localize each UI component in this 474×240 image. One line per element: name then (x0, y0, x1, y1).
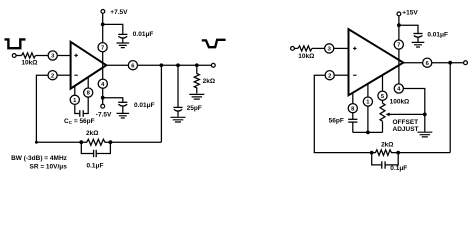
junction output right (448, 61, 452, 65)
potentiometer 100k (382, 100, 384, 103)
svg-text:2kΩ: 2kΩ (86, 130, 98, 137)
bottom rail right (353, 131, 383, 133)
wire feedback rail right (110, 141, 161, 143)
svg-text:-7.5V: -7.5V (96, 112, 112, 119)
feedback vertical wire (160, 65, 162, 142)
output terminal right (464, 61, 468, 65)
wire terminal to R2 (294, 47, 298, 49)
pin 5 right (382, 75, 384, 91)
svg-text:2kΩ: 2kΩ (381, 141, 393, 148)
wire to bypass cap right (399, 25, 418, 33)
svg-text:0.1μF: 0.1μF (87, 162, 104, 169)
capacitor 25pF (173, 106, 182, 108)
input terminal (12, 54, 16, 58)
junction wiper (423, 113, 427, 117)
ground under 25pF (171, 117, 186, 122)
svg-text:2kΩ: 2kΩ (203, 78, 215, 85)
wire pin2 to op-amp right (334, 74, 348, 76)
input terminal right (291, 47, 295, 51)
junction bottom supply (101, 96, 105, 100)
wire terminal to R1 (16, 55, 21, 57)
op-amp A1 (71, 42, 107, 89)
ground under load (189, 94, 204, 99)
supply terminal +7.5V (101, 10, 105, 14)
svg-text:SR = 10V/μs: SR = 10V/μs (29, 164, 67, 171)
svg-text:+15V: +15V (402, 10, 418, 17)
ground under pin4 line (417, 132, 432, 137)
svg-text:OFFSET: OFFSET (393, 119, 419, 126)
svg-text:0.01μF: 0.01μF (133, 31, 154, 38)
pin 2 right (325, 71, 334, 80)
pin 6 (128, 61, 137, 70)
pin 2 left (48, 71, 57, 80)
junction feedback left (79, 140, 83, 144)
junction output load (195, 63, 199, 67)
svg-text:25pF: 25pF (187, 105, 202, 112)
svg-text:2: 2 (328, 73, 331, 79)
wire feedback rail right to output (398, 152, 450, 154)
pin 4 (98, 79, 107, 88)
output pulse waveform (202, 40, 226, 47)
ground under C2 (117, 113, 130, 118)
svg-text:0.01μF: 0.01μF (427, 32, 448, 39)
V+ supply vertical wire (102, 13, 104, 104)
feedback capacitor 0.1uF right (372, 153, 399, 165)
output wire apex to pin6 (106, 64, 128, 66)
pin 4 right (394, 84, 403, 93)
svg-text:0.01μF: 0.01μF (134, 102, 155, 109)
ground under C1 (117, 43, 130, 48)
wire to 25pF cap (177, 65, 179, 107)
pin 1 (74, 86, 76, 95)
capacitor 56pF right (352, 113, 354, 119)
junction feedback cap right (396, 151, 400, 155)
pin 7 right (394, 40, 403, 49)
pin 7 (98, 43, 107, 52)
wire pin4 to ground line (403, 89, 424, 132)
svg-text:10kΩ: 10kΩ (298, 53, 314, 60)
capacitor C1 0.01uF (118, 33, 127, 35)
svg-text:100kΩ: 100kΩ (390, 98, 410, 105)
wire to bypass cap C1 (103, 24, 123, 34)
junction feedback cap left (370, 151, 374, 155)
junction pin2 rail corner (35, 141, 38, 144)
junction top supply (101, 23, 105, 27)
pin 3 right (325, 44, 334, 53)
load resistor 2k (194, 65, 199, 93)
pin 8 (87, 77, 89, 88)
junction output 25pF (176, 63, 180, 67)
svg-text:2: 2 (51, 73, 54, 79)
wire pin2 to feedback rail right (314, 75, 371, 152)
output wire pin6 to terminal right (432, 62, 464, 64)
capacitor Cc 56pF (75, 97, 88, 113)
pin 8 right (352, 93, 354, 104)
svg-text:7: 7 (101, 45, 104, 51)
feedback resistor 2k right (372, 150, 400, 156)
supply terminal -7.5V (101, 104, 105, 108)
svg-text:10kΩ: 10kΩ (21, 60, 37, 67)
junction output feedback (160, 63, 164, 67)
wire R2 to pin3 (312, 47, 325, 49)
op-amp A2 (349, 29, 404, 95)
wire pin3 to op-amp (57, 55, 70, 57)
svg-text:56pF: 56pF (329, 118, 344, 125)
pin 6 right (423, 58, 432, 67)
svg-text:0.1μF: 0.1μF (390, 165, 407, 172)
pin 3 left (48, 51, 57, 60)
feedback vertical right (449, 63, 451, 153)
capacitor C2 0.01uF (118, 101, 127, 103)
junction feedback right (109, 140, 113, 144)
svg-text:+7.5V: +7.5V (110, 9, 128, 16)
resistor R2 10k (298, 46, 312, 51)
wire pin2 to feedback rail (36, 75, 81, 142)
V+ supply vertical right (398, 16, 400, 84)
junction pin1 rail (366, 131, 370, 135)
wire pin2 to op-amp (57, 74, 70, 76)
wire to bypass cap C2 (103, 98, 123, 103)
feedback capacitor 0.1uF branch (81, 142, 110, 153)
output wire right (403, 62, 422, 64)
junction supply right (397, 23, 401, 27)
capacitor 0.01uF right (413, 33, 422, 35)
feedback resistor 2k (81, 139, 110, 145)
pin 1 right (367, 84, 369, 97)
output wire pin6 to terminal (138, 64, 212, 66)
wire pin3 to op-amp right (334, 47, 349, 49)
input pulse waveform (5, 39, 26, 48)
supply terminal +15V (397, 12, 401, 16)
ground under cap right (412, 42, 425, 47)
pot wiper arrow (389, 113, 425, 115)
svg-text:7: 7 (397, 43, 400, 49)
output terminal (211, 63, 215, 67)
resistor R1 10k (22, 53, 36, 58)
svg-text:ADJUST: ADJUST (393, 126, 419, 133)
wire R1 to pin3 (36, 55, 49, 57)
svg-text:CC = 56pF: CC = 56pF (64, 118, 95, 125)
svg-text:BW (-3dB) = 4MHz: BW (-3dB) = 4MHz (11, 155, 68, 162)
